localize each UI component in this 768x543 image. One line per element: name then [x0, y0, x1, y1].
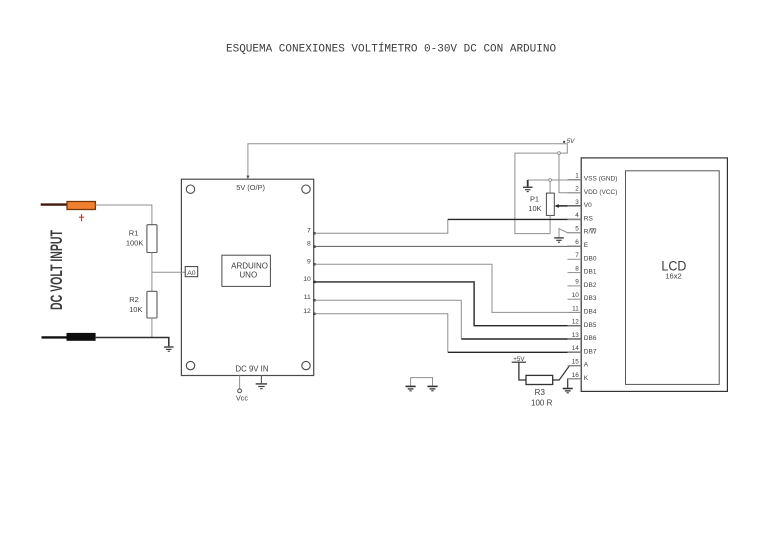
wire negative to ground [96, 338, 169, 347]
svg-text:10K: 10K [129, 305, 142, 314]
power +5V top [563, 141, 565, 143]
mounting hole top-left [186, 185, 194, 193]
junction pot top [549, 179, 552, 182]
potentiometer P1 [546, 193, 554, 215]
ground K [563, 389, 573, 393]
svg-text:15: 15 [572, 359, 580, 366]
lcd pin 11 DB4 [568, 312, 582, 314]
svg-text:R/W: R/W [584, 229, 598, 236]
svg-text:VSS (GND): VSS (GND) [584, 176, 618, 183]
mounting hole bottom-left [186, 361, 194, 369]
lcd pin 9 DB2 [568, 285, 582, 287]
lcd pin 2 VDD (VCC) [568, 192, 582, 194]
mounting hole top-right [302, 185, 310, 193]
lcd pin 8 DB1 [568, 272, 582, 274]
lcd pin 4 RS [568, 218, 582, 220]
lcd pin 5 R/W [568, 232, 582, 234]
svg-text:Vcc: Vcc [236, 394, 249, 403]
wiper arrow [554, 204, 559, 208]
node arrow at 5V pin [246, 176, 249, 180]
svg-text:DB7: DB7 [584, 348, 597, 355]
lcd pin 1 VSS (GND) [568, 179, 582, 181]
pin 10 arduino [313, 281, 315, 283]
svg-text:DB3: DB3 [584, 295, 597, 302]
wire R3 to pin A [553, 366, 582, 380]
node A0 [185, 267, 198, 277]
pin 12 arduino [313, 313, 315, 315]
terminal J1 positive (orange) [67, 202, 95, 210]
wire pot top lead [549, 181, 551, 193]
ground RW [554, 238, 564, 242]
terminal Vcc [238, 389, 242, 393]
wire input positive lead [41, 203, 67, 205]
svg-text:16: 16 [572, 372, 580, 379]
svg-text:11: 11 [572, 305, 579, 312]
wire 5V rail from arduino top [248, 144, 567, 234]
wire +5V to R3 [519, 362, 526, 380]
svg-text:V0: V0 [584, 202, 592, 209]
svg-text:DC 9V IN: DC 9V IN [236, 364, 269, 373]
wire DB7 from pin12 [315, 314, 448, 352]
svg-text:10: 10 [572, 292, 580, 299]
lcd pin 3 V0 [568, 205, 582, 207]
svg-text:100 R: 100 R [531, 398, 553, 407]
pin 11 arduino [313, 299, 315, 301]
ground mid right [427, 386, 437, 390]
lcd pin 15 A [568, 365, 582, 367]
svg-text:5V (O/P): 5V (O/P) [236, 183, 265, 192]
svg-text:DC VOLT INPUT: DC VOLT INPUT [46, 230, 65, 310]
resistor R2 [147, 291, 157, 318]
svg-text:5V: 5V [567, 138, 576, 145]
svg-text:1: 1 [575, 172, 579, 179]
lcd pin 16 K [568, 378, 582, 380]
overline on W of R/W [590, 228, 596, 230]
svg-text:A0: A0 [187, 270, 196, 277]
svg-text:DB4: DB4 [584, 309, 597, 316]
svg-text:13: 13 [572, 332, 580, 339]
LCD screen [626, 171, 720, 385]
svg-text:12: 12 [303, 308, 311, 315]
wire DB5 from pin10 [315, 282, 582, 326]
lcd pin 12 DB5 [568, 325, 582, 327]
pin 7 arduino [313, 232, 315, 234]
wire E from pin8 [315, 245, 582, 247]
wire RW to ground [559, 229, 581, 238]
svg-text:DB2: DB2 [584, 282, 597, 289]
wire input negative lead [42, 336, 67, 338]
wire RS into LCD [448, 218, 581, 220]
wire R2 bottom [151, 318, 153, 338]
ground input [164, 347, 174, 351]
svg-text:9: 9 [307, 258, 311, 265]
wire VDD branch [559, 153, 581, 193]
svg-text:VDD (VCC): VDD (VCC) [584, 189, 618, 196]
svg-text:ESQUEMA CONEXIONES VOLTÍMETRO: ESQUEMA CONEXIONES VOLTÍMETRO 0-30V DC C… [226, 42, 556, 56]
ground VSS [523, 187, 533, 191]
lcd pin 6 E [568, 245, 582, 247]
wire pot bottom lead [549, 215, 551, 233]
wire ground stub VSS [527, 180, 529, 187]
wire VSS ground line [528, 179, 582, 181]
svg-text:ARDUINO: ARDUINO [231, 262, 268, 271]
svg-text:DB5: DB5 [584, 322, 597, 329]
svg-text:DB0: DB0 [584, 255, 597, 262]
svg-text:R2: R2 [129, 295, 139, 304]
svg-text:7: 7 [307, 227, 311, 234]
lcd pin 14 DB7 [568, 351, 582, 353]
svg-text:2: 2 [575, 186, 579, 193]
svg-text:4: 4 [575, 212, 579, 219]
Arduino board U1 [181, 179, 313, 375]
wire V0 wiper [558, 205, 582, 207]
wire positive to R1 [95, 205, 151, 225]
svg-text:10K: 10K [528, 204, 541, 213]
wire Vcc stub [239, 376, 241, 389]
polarity label + [79, 214, 84, 221]
svg-text:11: 11 [304, 294, 311, 301]
svg-text:14: 14 [572, 345, 580, 352]
svg-text:8: 8 [575, 265, 579, 272]
svg-text:K: K [584, 375, 589, 382]
svg-text:UNO: UNO [239, 270, 257, 279]
svg-text:R3: R3 [535, 388, 546, 397]
svg-text:9: 9 [575, 279, 579, 286]
lcd pin 13 DB6 [568, 338, 582, 340]
svg-text:6: 6 [575, 239, 579, 246]
label ARDUINO UNO [222, 255, 271, 286]
lcd pin 7 DB0 [568, 258, 582, 260]
svg-text:E: E [584, 242, 589, 249]
pin 8 arduino [313, 245, 315, 247]
svg-text:7: 7 [575, 252, 579, 259]
wire divider tap to A0 [152, 271, 185, 273]
mounting hole bottom-right [302, 361, 310, 369]
LCD module [581, 158, 727, 392]
pin 9 arduino [313, 263, 315, 265]
svg-text:100K: 100K [126, 239, 144, 248]
wire arduino ground stub [260, 376, 262, 384]
svg-text:DB1: DB1 [584, 269, 597, 276]
svg-text:3: 3 [575, 199, 579, 206]
wire DB6 from pin11 [315, 300, 462, 338]
ground arduino [256, 384, 267, 389]
wire R1 to R2 [151, 253, 153, 292]
svg-text:P1: P1 [530, 195, 539, 204]
wire K to ground [568, 379, 582, 388]
wire mid ground link [411, 378, 433, 387]
ground mid left [406, 386, 416, 390]
svg-text:10: 10 [303, 276, 311, 283]
lcd pin 10 DB3 [568, 298, 582, 300]
svg-text:R1: R1 [129, 228, 139, 237]
wire RS from pin7 [315, 219, 448, 233]
terminal J2 negative (black) [67, 333, 96, 341]
resistor R1 [147, 225, 157, 253]
svg-text:8: 8 [307, 241, 311, 248]
junction VDD rail [558, 152, 561, 155]
svg-text:RS: RS [584, 215, 594, 222]
svg-text:5: 5 [575, 226, 579, 233]
wire DB4 from pin9 [315, 264, 582, 312]
svg-text:12: 12 [572, 319, 580, 326]
svg-text:DB6: DB6 [584, 335, 597, 342]
svg-text:16x2: 16x2 [665, 272, 681, 281]
resistor R3 [526, 375, 553, 384]
svg-text:A: A [584, 362, 589, 369]
